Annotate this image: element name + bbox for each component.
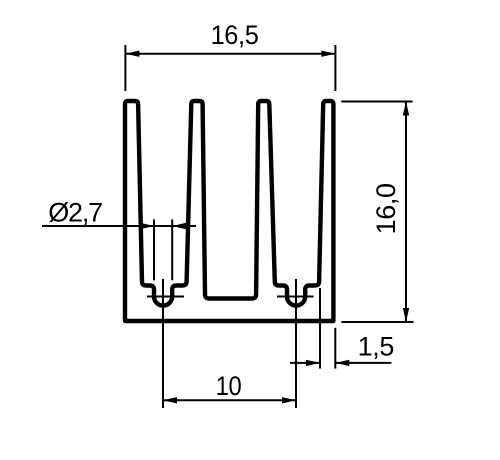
dimension Ø2,7 extension line right — [171, 219, 173, 280]
dimension Ø2,7 arrow right (points left) — [172, 223, 186, 229]
dimension 10 line — [163, 399, 296, 401]
dimension 10 arrow left — [163, 397, 177, 403]
centerline left hole vertical — [162, 279, 164, 408]
dimension Ø2,7 arrow left (points right) — [140, 223, 154, 229]
dimension 16,5 extension line right — [334, 45, 336, 91]
dimension 16,0 arrow bottom — [403, 308, 409, 322]
centerline right hole horizontal — [277, 296, 314, 298]
svg-text:1,5: 1,5 — [358, 332, 394, 362]
svg-text:16,0: 16,0 — [371, 183, 401, 234]
dimension 10 arrow right — [282, 397, 296, 403]
svg-text:16,5: 16,5 — [211, 19, 259, 50]
dimension 16,0 line — [405, 102, 407, 323]
dimension 16,5 arrow left — [125, 51, 139, 57]
svg-text:10: 10 — [216, 372, 242, 402]
dimension 1,5 extension line left — [319, 288, 321, 369]
dimension 16,0 extension line top — [341, 101, 412, 103]
dimension 1,5 arrow left (points right) — [306, 360, 320, 366]
dimension Ø2,7 extension line left — [153, 219, 155, 280]
dimension 16,0 arrow top — [403, 102, 409, 116]
dimension Ø2,7 leader line — [42, 225, 196, 227]
dimension 1,5 arrow right (points left) — [335, 360, 349, 366]
heatsink profile outline — [125, 101, 333, 321]
dimension 1,5 extension line right — [334, 328, 336, 369]
centerline right hole vertical — [295, 279, 297, 408]
dimension 1,5 line right segment — [335, 362, 391, 364]
dimension 1,5 line left segment — [290, 362, 320, 364]
dimension 16,5 line — [125, 53, 335, 55]
svg-text:Ø2,7: Ø2,7 — [48, 198, 102, 228]
centerline left hole horizontal — [147, 296, 184, 298]
dimension 16,5 extension line left — [124, 45, 126, 91]
dimension 16,5 arrow right — [321, 51, 335, 57]
dimension 16,0 extension line bottom — [342, 321, 414, 323]
